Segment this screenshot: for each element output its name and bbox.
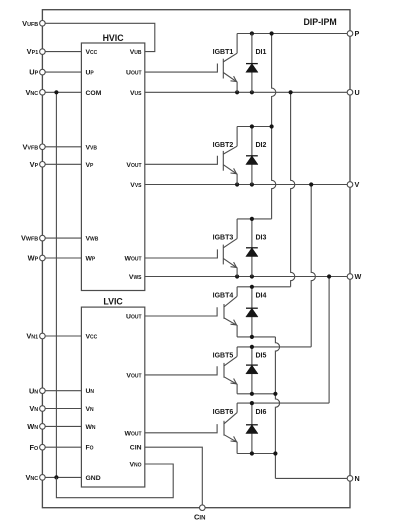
junction U rail / DI1 anode [250, 90, 254, 94]
junction VNC bottom [54, 475, 58, 479]
pin P [347, 31, 353, 37]
wire IGBT2 collector rail [237, 126, 272, 128]
svg-text:HVIC: HVIC [103, 33, 125, 43]
junction IGBT6 emitter / DI6 anode [250, 451, 254, 455]
svg-text:CIN: CIN [130, 445, 142, 452]
wire V feed vertical to IGBT5 [311, 185, 315, 347]
junction W rail / DI3 anode [250, 274, 254, 278]
wire VNC2 to IC [42, 476, 81, 478]
svg-text:U: U [355, 88, 360, 97]
wire U feed vertical to IGBT4 [291, 92, 295, 286]
transistor IGBT1 [145, 53, 237, 92]
svg-text:VOUT: VOUT [126, 162, 141, 169]
svg-text:N: N [355, 474, 360, 483]
svg-text:GND: GND [86, 475, 101, 482]
svg-text:VNO: VNO [129, 462, 141, 469]
junction IGBT5 emitter / N bus [273, 392, 277, 396]
svg-text:WOUT: WOUT [125, 430, 142, 437]
transistor IGBT3 [145, 239, 237, 277]
junction W rail / W feed [327, 274, 331, 278]
wire VVFB to IC [42, 146, 81, 148]
wire VP1 to IC [42, 51, 81, 53]
wire UP to IC [42, 71, 81, 73]
svg-text:DI6: DI6 [256, 409, 267, 416]
svg-text:IGBT1: IGBT1 [213, 49, 234, 56]
junction U rail / U feed [289, 90, 293, 94]
wire IGBT4 emitter rail [237, 336, 275, 338]
transistor IGBT2 [145, 146, 237, 184]
wire UN to IC [42, 390, 81, 392]
svg-text:DI2: DI2 [256, 142, 267, 149]
pin WN [40, 424, 46, 430]
wire VNC to IC [42, 91, 81, 93]
junction P rail / DI1 [250, 31, 254, 35]
junction IGBT6 rail / DI6 [250, 401, 254, 405]
wire IGBT4 collector rail [237, 286, 291, 288]
svg-text:VN: VN [86, 406, 95, 413]
junction IGBT4 emitter / DI4 anode [250, 335, 254, 339]
pin UP [40, 69, 46, 75]
pin CIN [200, 505, 206, 511]
svg-text:WN: WN [86, 424, 96, 431]
IC HVIC [81, 43, 144, 291]
svg-text:WOUT: WOUT [125, 256, 142, 263]
junction IGBT3 rail / DI3 [250, 217, 254, 221]
svg-text:UOUT: UOUT [126, 70, 141, 77]
diode DI5 [246, 347, 258, 394]
svg-text:DI1: DI1 [256, 49, 267, 56]
wire N vertical bus [275, 337, 279, 479]
wire Fo to IC [42, 446, 81, 448]
junction V rail / V feed [309, 182, 313, 186]
svg-text:DI5: DI5 [256, 353, 267, 360]
svg-text:UP: UP [86, 70, 95, 77]
svg-text:IGBT3: IGBT3 [213, 235, 234, 242]
svg-text:VWB: VWB [86, 236, 99, 243]
package outline DIP-IPM [42, 10, 350, 508]
IGBT2 collector riser [236, 127, 238, 147]
diode DI6 [246, 403, 258, 453]
junction IGBT5 emitter / DI5 anode [250, 392, 254, 396]
svg-text:VOUT: VOUT [126, 372, 141, 379]
junction V rail / IGBT2 emitter [235, 182, 239, 186]
svg-text:VWS: VWS [129, 274, 142, 281]
wire CIN to package pin [145, 447, 203, 508]
junction U rail / IGBT1 emitter [235, 90, 239, 94]
junction IGBT2 rail / P feed [270, 124, 274, 128]
wire VWFB to IC [42, 237, 81, 239]
svg-text:IGBT2: IGBT2 [213, 142, 234, 149]
svg-text:W: W [355, 272, 362, 281]
pin VUFB [40, 21, 46, 27]
junction IGBT6 emitter / N bus [273, 451, 277, 455]
diode DI4 [246, 287, 258, 337]
junction V rail / DI2 anode [250, 182, 254, 186]
IGBT1 collector riser [236, 34, 238, 54]
svg-text:UN: UN [86, 388, 95, 395]
pin Fo [40, 444, 46, 450]
wire IGBT6 collector rail [237, 402, 329, 404]
junction IGBT5 rail / DI5 [250, 345, 254, 349]
wire W feed vertical to IGBT6 [328, 277, 330, 404]
wire WN to IC [42, 425, 81, 427]
wire P rail [237, 33, 350, 35]
pin V [347, 182, 353, 188]
pin VN1 [40, 333, 46, 339]
wire V rail / Vvs [145, 184, 350, 186]
svg-text:WP: WP [86, 256, 96, 263]
pin VVFB [40, 144, 46, 150]
svg-text:DI3: DI3 [256, 235, 267, 242]
svg-text:IGBT6: IGBT6 [213, 409, 234, 416]
pin VWFB [40, 235, 46, 241]
IC LVIC [81, 307, 144, 487]
IGBT6 collector riser [236, 403, 238, 413]
diode DI3 [246, 219, 258, 277]
pin VP [40, 162, 46, 168]
pin U [347, 90, 353, 96]
junction VNC top [54, 90, 58, 94]
wire VUFB to Vub [42, 23, 154, 51]
transistor IGBT5 [145, 356, 237, 393]
wire VN1 to IC [42, 335, 81, 337]
wire VNC vertical bus [55, 92, 57, 477]
junction P rail / P feed [270, 31, 274, 35]
svg-text:VVB: VVB [86, 144, 98, 151]
svg-text:FO: FO [86, 445, 94, 452]
svg-text:VP: VP [86, 162, 95, 169]
svg-text:DIP-IPM: DIP-IPM [303, 17, 336, 27]
pin VNC2 [40, 475, 46, 481]
svg-text:DI4: DI4 [256, 293, 267, 300]
svg-text:P: P [355, 29, 360, 38]
pin N [347, 476, 353, 482]
svg-text:COM: COM [86, 90, 102, 97]
wire Vno loop to VNC [56, 464, 173, 498]
pin W [347, 274, 353, 280]
svg-text:VVS: VVS [130, 182, 142, 189]
pin UN [40, 388, 46, 394]
IGBT3 collector riser [236, 219, 238, 239]
wire IGBT3 collector rail [237, 218, 272, 220]
wire N rail [275, 477, 350, 479]
IGBT4 collector riser [236, 287, 238, 297]
svg-text:VUS: VUS [130, 90, 142, 97]
svg-text:IGBT4: IGBT4 [213, 293, 234, 300]
IGBT5 collector riser [236, 347, 238, 357]
diode DI2 [246, 127, 258, 185]
svg-text:VCC: VCC [86, 49, 98, 56]
transistor IGBT6 [145, 413, 237, 454]
wire W rail / Vws [145, 276, 350, 278]
wire IGBT5 collector rail [237, 346, 311, 348]
svg-text:VCC: VCC [86, 334, 98, 341]
pin VNC [40, 90, 46, 96]
pin WP [40, 255, 46, 261]
wire VP to IC [42, 163, 81, 165]
svg-text:V: V [355, 180, 360, 189]
junction IGBT2 rail / DI2 [250, 124, 254, 128]
wire P feed vertical [272, 34, 276, 219]
transistor IGBT4 [145, 296, 237, 337]
pin VN [40, 406, 46, 412]
junction IGBT4 rail / DI4 [250, 285, 254, 289]
pin VP1 [40, 49, 46, 55]
svg-text:UOUT: UOUT [126, 314, 141, 321]
wire IGBT5 emitter rail [237, 393, 275, 395]
svg-text:LVIC: LVIC [103, 297, 123, 307]
svg-text:IGBT5: IGBT5 [213, 353, 234, 360]
wire U rail / Vus [145, 91, 350, 93]
junction W rail / IGBT3 emitter [235, 274, 239, 278]
diode DI1 [246, 34, 258, 93]
wire IGBT6 emitter rail [237, 453, 275, 455]
wire WP to IC [42, 257, 81, 259]
svg-text:VUB: VUB [130, 49, 142, 56]
wire VN to IC [42, 408, 81, 410]
